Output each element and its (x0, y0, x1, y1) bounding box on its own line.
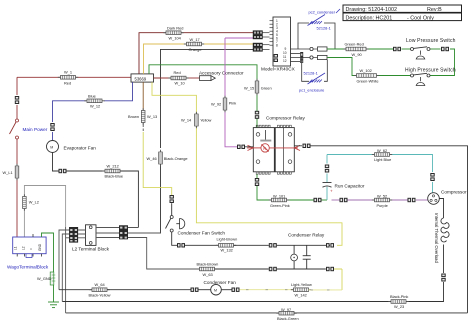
svg-text:Compressor: Compressor (441, 189, 467, 194)
svg-text:8: 8 (276, 44, 278, 48)
svg-text:Black-Blue: Black-Blue (105, 174, 124, 179)
svg-text:Yellow: Yellow (200, 118, 211, 123)
svg-text:Green-Red: Green-Red (345, 42, 364, 47)
svg-text:Condenser Fan: Condenser Fan (204, 280, 237, 285)
svg-text:W_1: W_1 (64, 69, 72, 74)
svg-text:W_63: W_63 (203, 272, 213, 277)
svg-text:High Pressure Switch: High Pressure Switch (405, 68, 456, 74)
svg-text:W_L2: W_L2 (29, 199, 39, 204)
svg-text:Main Power: Main Power (23, 127, 48, 132)
svg-text:WagoTerminalBlock: WagoTerminalBlock (7, 264, 49, 269)
svg-text:53669: 53669 (135, 76, 147, 81)
svg-text:GND: GND (38, 243, 42, 251)
svg-text:Condenser Fan Switch: Condenser Fan Switch (178, 230, 226, 235)
svg-text:W_104: W_104 (169, 36, 182, 41)
svg-text:M: M (50, 145, 53, 149)
svg-text:Green-Pink: Green-Pink (270, 203, 290, 208)
svg-text:W_90: W_90 (352, 52, 363, 57)
svg-text:M: M (214, 289, 217, 293)
svg-text:Evaporator Fan: Evaporator Fan (64, 146, 97, 151)
svg-text:W_15: W_15 (244, 85, 254, 90)
svg-text:=: = (30, 248, 34, 250)
svg-text:Black-Yellow: Black-Yellow (89, 293, 111, 298)
svg-text:L2 Terminal Block: L2 Terminal Block (72, 246, 110, 251)
svg-text:52128-1: 52128-1 (304, 70, 318, 75)
svg-text:Drawing: 51204-1002: Drawing: 51204-1002 (346, 7, 398, 13)
svg-text:Rev:B: Rev:B (427, 7, 442, 13)
svg-text:pc1_enclosure: pc1_enclosure (299, 88, 324, 93)
svg-text:Brown: Brown (128, 114, 139, 119)
svg-text:W_52: W_52 (377, 193, 387, 198)
svg-text:Low Pressure Switch: Low Pressure Switch (406, 38, 456, 44)
svg-text:+: + (330, 188, 333, 193)
svg-text:W_GND: W_GND (37, 276, 52, 281)
svg-text:Purple: Purple (377, 203, 388, 208)
svg-text:W_132: W_132 (221, 248, 233, 253)
svg-text:Model=XR40CX: Model=XR40CX (261, 66, 296, 71)
svg-text:W_142: W_142 (295, 292, 307, 297)
svg-text:Pink: Pink (229, 101, 237, 106)
svg-text:12: 12 (283, 59, 287, 63)
svg-text:Run Capacitor: Run Capacitor (335, 183, 365, 188)
svg-text:Light Blue: Light Blue (374, 157, 391, 162)
svg-text:Black-Green: Black-Green (277, 316, 299, 321)
svg-text:Light-Brown: Light-Brown (217, 237, 238, 242)
svg-text:W_13: W_13 (147, 114, 157, 119)
svg-text:Black-Pink: Black-Pink (390, 294, 408, 299)
svg-text:W_L1: W_L1 (3, 170, 13, 175)
svg-text:- Cool Only: - Cool Only (407, 15, 434, 21)
svg-text:L1: L1 (14, 246, 18, 250)
svg-text:W_101: W_101 (273, 193, 285, 198)
svg-text:W_92: W_92 (211, 102, 221, 107)
svg-text:pc2_condenser: pc2_condenser (309, 9, 336, 14)
svg-text:Black-Brown: Black-Brown (197, 262, 219, 267)
svg-text:Accessory Connector: Accessory Connector (199, 70, 244, 75)
svg-text:Compressor Relay: Compressor Relay (266, 115, 305, 120)
svg-text:L2: L2 (22, 246, 26, 250)
svg-text:Red: Red (64, 80, 71, 85)
svg-text:Dark Red: Dark Red (167, 26, 183, 31)
svg-text:W_62: W_62 (377, 148, 387, 153)
svg-text:W_17: W_17 (190, 37, 200, 42)
svg-text:W_10: W_10 (175, 81, 186, 86)
svg-text:Green-White: Green-White (357, 79, 379, 84)
svg-text:52128-1: 52128-1 (317, 26, 331, 31)
svg-text:W_102: W_102 (360, 68, 372, 73)
svg-text:W_12: W_12 (90, 104, 100, 109)
svg-text:Green: Green (261, 85, 272, 90)
svg-text:W_23: W_23 (394, 304, 404, 309)
svg-text:Internal Thermal Overload: Internal Thermal Overload (434, 213, 439, 263)
svg-text:Condenser Relay: Condenser Relay (288, 233, 325, 238)
svg-text:W_64: W_64 (95, 282, 106, 287)
svg-text:W_46: W_46 (147, 156, 157, 161)
svg-text:Light-Yellow: Light-Yellow (291, 282, 312, 287)
svg-text:Red: Red (174, 70, 181, 75)
svg-text:Description: HC201: Description: HC201 (346, 15, 393, 21)
svg-text:Black-Orange: Black-Orange (164, 156, 188, 161)
svg-text:W_212: W_212 (107, 163, 119, 168)
svg-text:W_14: W_14 (181, 118, 192, 123)
svg-text:Blue: Blue (88, 94, 96, 99)
